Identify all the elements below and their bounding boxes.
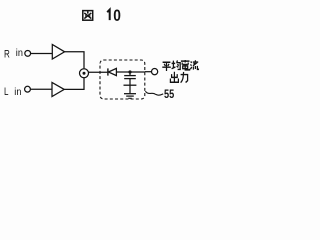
svg-text:0: 0 (113, 7, 121, 25)
svg-text:55: 55 (164, 88, 174, 102)
svg-text:L: L (4, 85, 8, 97)
svg-text:R: R (4, 48, 10, 60)
svg-text:in: in (14, 86, 21, 98)
svg-text:in: in (16, 48, 23, 60)
